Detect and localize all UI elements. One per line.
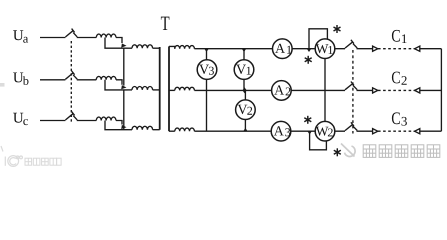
- wiper arrow (phase C): [121, 125, 126, 129]
- switch (phase C): [65, 112, 77, 120]
- wattmeter W2 current-coil loop: [310, 131, 327, 150]
- junction node (W1 loop): [307, 49, 311, 52]
- feeder label C1: [392, 30, 407, 43]
- wire voltmeter V2 branch (row B to row C): [244, 90, 246, 131]
- ammeter A3: [271, 121, 291, 141]
- wire secondary c (row bus): [194, 130, 345, 132]
- feeder line C1 (dashed): [378, 48, 415, 50]
- junction node (V2 bottom): [243, 128, 247, 131]
- transformer T secondary winding b: [169, 87, 194, 90]
- wire C1 to right bus: [420, 48, 442, 50]
- wire Ua to switch: [40, 37, 65, 39]
- variac winding (phase C): [96, 117, 116, 120]
- watermark (left edge smudge): [0, 83, 5, 87]
- switch (phase B): [65, 71, 77, 79]
- voltmeter V3: [197, 60, 217, 80]
- gang link dashed line (right switches): [352, 50, 354, 134]
- junction node (W2 loop): [307, 131, 311, 134]
- wire primary A to core: [153, 47, 160, 49]
- plug connector arrow (C2 left): [373, 88, 378, 93]
- wire secondary a (row bus): [194, 48, 345, 50]
- wire Uc to switch: [40, 120, 65, 122]
- junction node (V3 top): [204, 49, 208, 52]
- wire switch to variac A: [77, 37, 97, 39]
- transformer T primary winding B: [132, 86, 153, 89]
- voltmeter V2: [236, 100, 256, 120]
- transformer T primary winding C: [132, 126, 153, 129]
- wire variac B to corner: [116, 80, 122, 85]
- watermark (bottom right logo): [341, 144, 355, 157]
- feeder label C3: [392, 112, 407, 125]
- tap wire (phase A): [105, 38, 128, 49]
- watermark (bottom left text): [25, 158, 61, 165]
- feeder label C2: [392, 72, 407, 85]
- wire secondary b (row bus): [194, 89, 345, 91]
- transformer core bar (primary side): [159, 47, 161, 130]
- variac winding (phase B): [96, 76, 116, 79]
- feeder line C3 (dashed): [378, 130, 415, 132]
- switch (phase A): [65, 29, 77, 37]
- node Uc label: [13, 113, 28, 125]
- wire wattmeter voltage link W1-W2: [324, 49, 326, 132]
- transformer T secondary winding a: [169, 46, 194, 49]
- wire C1 switch to plug: [357, 48, 373, 50]
- wire primary C to core: [153, 129, 160, 131]
- watermark (bottom left logo): [1, 146, 22, 166]
- transformer core bar (secondary side): [168, 46, 170, 131]
- tap wire (phase C): [105, 121, 128, 130]
- switch (feeder C2): [345, 82, 357, 90]
- wire voltmeter V1 branch (row A to row B): [243, 49, 245, 91]
- junction node (V1 top): [242, 49, 246, 52]
- plug connector arrow (C1 left): [373, 46, 378, 51]
- wire C3 switch to plug: [357, 130, 373, 132]
- switch (feeder C3): [345, 122, 357, 130]
- wire C3 to right bus: [420, 130, 442, 132]
- wire voltmeter V3 branch (row A to row C): [206, 49, 208, 132]
- plug connector arrow (C3 right): [415, 129, 420, 134]
- wire tap A to primary winding A: [128, 47, 133, 49]
- wire variac C to corner: [116, 121, 122, 125]
- polarity mark * (W1 top right): [334, 25, 341, 33]
- plug connector arrow (C1 right): [415, 46, 420, 51]
- wire tap B to primary winding B: [128, 89, 133, 91]
- plug connector arrow (C2 right): [415, 88, 420, 93]
- junction node (V1 bottom / V2 top): [243, 87, 247, 93]
- polarity mark * (W1 bottom left): [305, 56, 312, 64]
- right bus wire: [440, 49, 442, 132]
- gang link dashed line (left switches): [70, 41, 72, 123]
- interphase link wire B-C: [123, 90, 125, 130]
- transformer T label: [161, 17, 170, 30]
- voltmeter V1: [234, 60, 254, 80]
- polarity mark * (W2 top left): [304, 116, 311, 124]
- wire variac A to corner: [116, 38, 122, 44]
- watermark (bottom right text 输配电线路): [363, 145, 440, 158]
- tap wire (phase B): [105, 80, 128, 90]
- wattmeter W1: [315, 39, 335, 59]
- wiper arrow (phase A): [121, 43, 126, 47]
- wire C2 switch to plug: [357, 89, 373, 91]
- plug connector arrow (C3 left): [373, 129, 378, 134]
- interphase link wire A-B: [123, 48, 125, 85]
- variac winding (phase A): [96, 34, 116, 37]
- transformer T secondary winding c: [169, 128, 194, 131]
- feeder line C2 (dashed): [378, 89, 415, 91]
- switch (feeder C1): [345, 40, 357, 48]
- wiper arrow (phase B): [121, 85, 126, 89]
- ammeter A1: [273, 39, 293, 59]
- wire tap C to primary winding C: [128, 129, 133, 131]
- wire switch to variac B: [77, 79, 97, 81]
- wire Ub to switch: [40, 79, 65, 81]
- wire switch to variac C: [77, 120, 97, 122]
- wire primary B to core: [153, 89, 160, 91]
- transformer T primary winding A: [132, 45, 153, 48]
- ammeter A2: [272, 81, 292, 101]
- node Ua label: [13, 30, 28, 42]
- wattmeter W1 current-coil loop: [309, 29, 327, 49]
- polarity mark * (W2 bottom right): [334, 148, 341, 156]
- wattmeter W2: [315, 121, 335, 141]
- node Ub label: [13, 73, 28, 85]
- wire C2 to right bus: [420, 89, 442, 91]
